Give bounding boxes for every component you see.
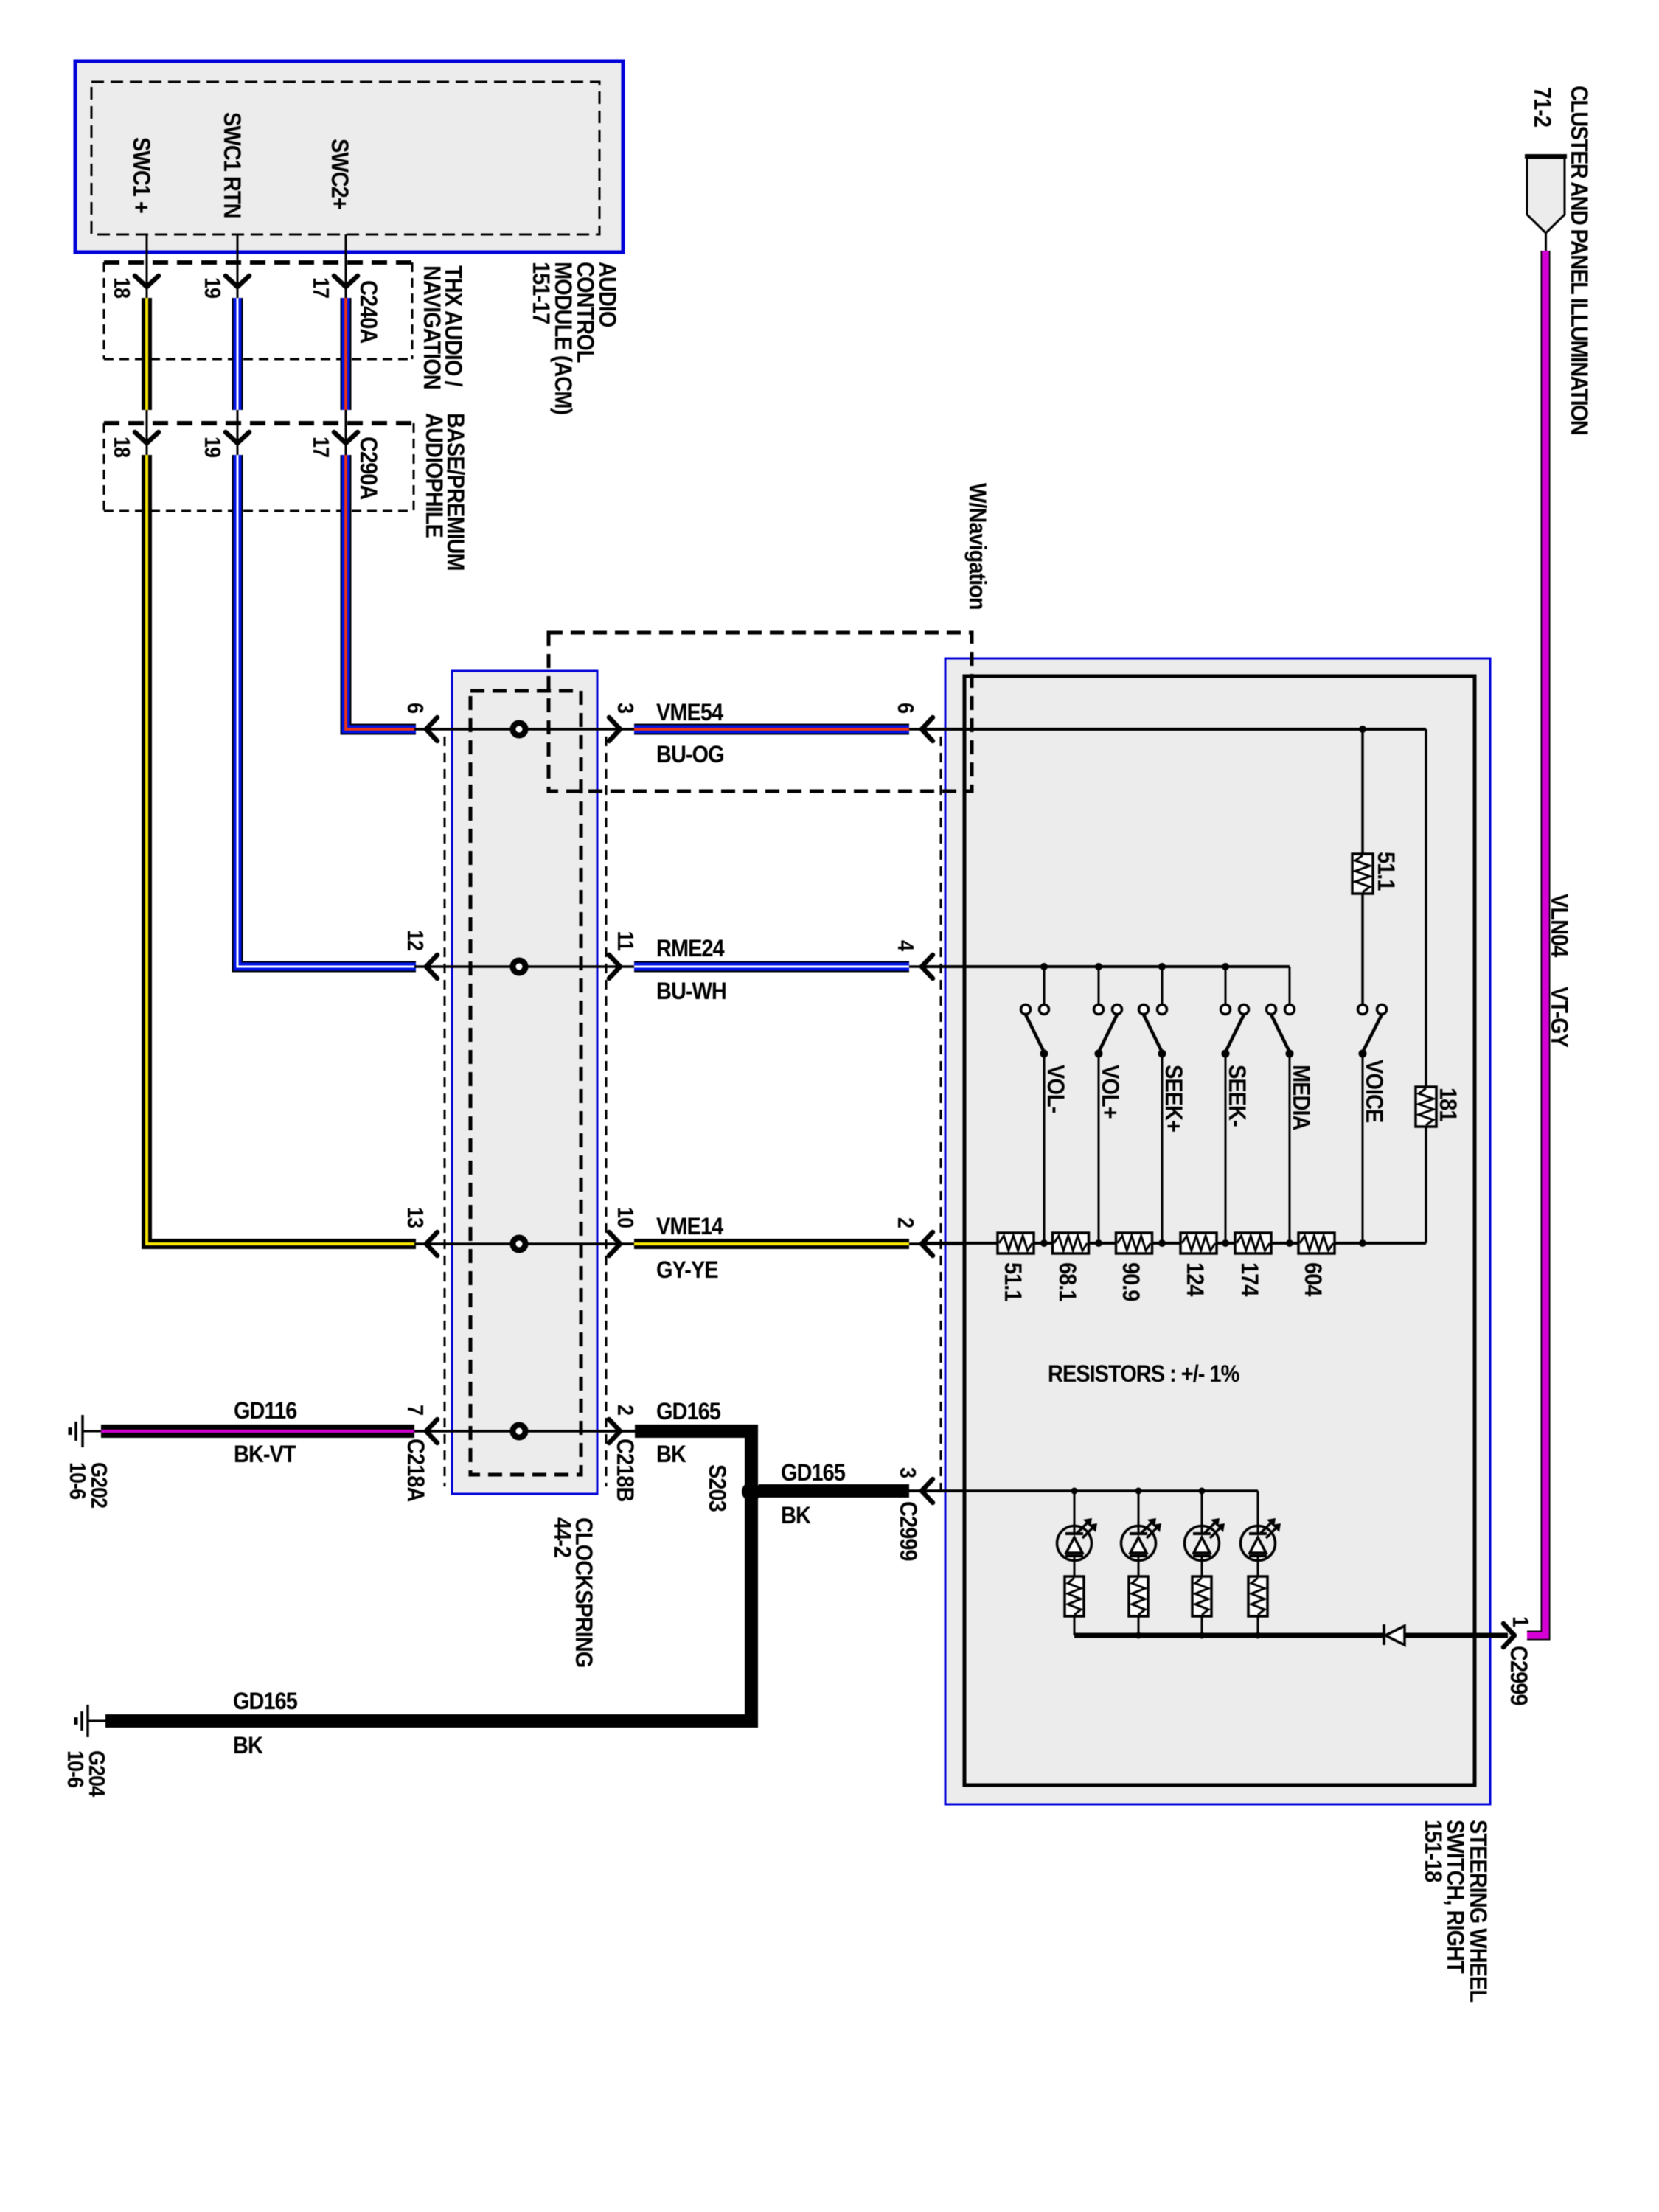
wire: pin 6 net inside switch [922, 726, 1426, 1243]
resistor 174 [1235, 1233, 1271, 1253]
svg-text:GD165: GD165 [656, 1397, 721, 1425]
label GD165 / BK (lower) [233, 1687, 298, 1759]
svg-text:44-2: 44-2 [549, 1517, 577, 1557]
svg-text:SWC1 +: SWC1 + [128, 137, 156, 213]
label STEERING WHEEL SWITCH, RIGHT 151-18 [1420, 1820, 1492, 2002]
svg-text:SWC2+: SWC2+ [327, 139, 354, 209]
svg-text:18: 18 [109, 437, 134, 458]
svg-text:2: 2 [613, 1405, 638, 1415]
svg-text:12: 12 [403, 930, 428, 950]
svg-text:SEEK+: SEEK+ [1161, 1065, 1188, 1132]
clockspring feed-through row pins 7/2 [414, 1419, 636, 1443]
svg-text:6: 6 [403, 703, 428, 713]
svg-text:10: 10 [613, 1207, 638, 1228]
svg-text:BU-WH: BU-WH [656, 977, 726, 1004]
wire VME54 BU-OG (clockspring to switch pin 6) [634, 724, 909, 735]
label G204 10-6 [63, 1750, 109, 1797]
wire: pin 3 LED feed line [909, 1488, 1258, 1526]
label VME14 / GY-YE [656, 1212, 724, 1283]
svg-text:GD165: GD165 [781, 1458, 846, 1486]
svg-text:C290A: C290A [355, 437, 383, 500]
svg-text:17: 17 [308, 437, 333, 457]
clockspring feed-through row pins 12/11 [414, 955, 636, 978]
wire RME24 BU-WH (to clockspring pin 12) [237, 455, 416, 967]
ground G204 [76, 1705, 105, 1737]
svg-text:18: 18 [109, 277, 134, 299]
svg-text:3: 3 [613, 703, 638, 713]
svg-text:VME14: VME14 [656, 1212, 724, 1239]
connector C240A (THX AUDIO / NAVIGATION) [104, 262, 412, 359]
svg-text:4: 4 [893, 940, 918, 951]
svg-text:2: 2 [893, 1217, 918, 1228]
switch VOL+ [1094, 1005, 1122, 1244]
LED 2 (illumination) [1121, 1491, 1162, 1576]
off-page connector CLUSTER AND PANEL ILLUMINATION 71-2 [1525, 156, 1567, 251]
switch connector arrows pins 6/4/2/3 [909, 717, 967, 1503]
switch MEDIA [1267, 1005, 1295, 1244]
svg-text:1: 1 [1508, 1616, 1533, 1627]
LED 4 (illumination) [1241, 1491, 1281, 1576]
wire GD165 BK (C218B pin2 to S203 to G204) [105, 1431, 751, 1721]
svg-text:C2999: C2999 [1506, 1646, 1533, 1705]
svg-text:G204: G204 [84, 1750, 109, 1797]
option region W/Navigation [549, 633, 972, 791]
label GD165 / BK (to pin 3) [781, 1458, 846, 1528]
svg-text:151-17: 151-17 [528, 262, 555, 324]
switch pin 1 arrow [1503, 1624, 1514, 1647]
svg-text:SEEK-: SEEK- [1224, 1065, 1251, 1127]
clockspring feed-through row pins 13/10 [414, 1232, 636, 1256]
label BASE/PREMIUM AUDIOPHILE [421, 413, 470, 571]
label VME54 / BU-OG [656, 698, 724, 768]
switch SEEK+ [1139, 1005, 1167, 1244]
svg-text:C240A: C240A [355, 280, 383, 344]
wire VME14 GY-YE segment (C240A-C290A) [142, 298, 152, 410]
LED 3 (illumination) [1185, 1491, 1225, 1576]
module box: AUDIO CONTROL MODULE (ACM) [75, 61, 623, 252]
svg-text:17: 17 [308, 277, 333, 298]
svg-text:11: 11 [613, 931, 638, 951]
svg-text:BK-VT: BK-VT [234, 1440, 296, 1467]
svg-text:13: 13 [403, 1207, 428, 1228]
switch VOL- [1021, 1005, 1049, 1244]
wire: pin 4 common bus [922, 963, 1290, 1004]
label THX AUDIO / NAVIGATION [419, 265, 467, 389]
svg-text:90.9: 90.9 [1118, 1262, 1145, 1301]
label GD165 / BK (upper) [656, 1397, 721, 1467]
wire: pin 2 resistor ladder bus [922, 1239, 1426, 1247]
wire SWC1 RTN drop from ACM pin 19 [237, 234, 239, 298]
wire GD116 BK-VT (G202 to clockspring pin 7) [101, 1425, 426, 1438]
svg-text:BU-OG: BU-OG [656, 740, 724, 768]
C240A pin arrows [135, 276, 358, 287]
wire VME54 BU-OG segment (C240A-C290A) [341, 298, 352, 410]
resistor 68.1 [1053, 1233, 1089, 1253]
svg-text:68.1: 68.1 [1054, 1262, 1082, 1301]
wire GD165 BK (S203 to switch pin 3) [759, 1484, 909, 1498]
svg-text:19: 19 [200, 437, 225, 457]
label GD116 / BK-VT [234, 1397, 297, 1467]
svg-text:71-2: 71-2 [1529, 87, 1557, 127]
clockspring feed-through row pins 6/3 [414, 717, 636, 741]
ground G202 [70, 1415, 101, 1447]
svg-text:604: 604 [1300, 1262, 1327, 1297]
svg-text:VT-GY: VT-GY [1546, 987, 1573, 1048]
connector line C2999 [940, 737, 942, 1498]
resistor 90.9 [1116, 1233, 1152, 1253]
svg-text:C2999: C2999 [895, 1501, 922, 1561]
wire SWC2+ drop from ACM pin 17 [345, 234, 347, 298]
svg-text:VOL-: VOL- [1043, 1065, 1070, 1113]
label AUDIO CONTROL MODULE (ACM) 151-17 [528, 262, 622, 414]
wire SWC1+ drop from ACM pin 18 [146, 234, 148, 298]
switch SEEK- [1221, 1005, 1249, 1244]
wire RME24 BU-WH (clockspring to switch pin 4) [634, 961, 909, 973]
svg-text:3: 3 [895, 1467, 920, 1478]
svg-text:151-18: 151-18 [1420, 1820, 1447, 1882]
svg-text:181: 181 [1435, 1088, 1462, 1121]
svg-text:6: 6 [893, 703, 918, 713]
resistor 181 [1416, 1087, 1436, 1127]
resistor 51.1 (voice) [1352, 854, 1373, 894]
resistor 51.1 (ladder) [998, 1233, 1034, 1253]
svg-text:W/Navigation: W/Navigation [964, 483, 992, 610]
svg-text:BK: BK [656, 1440, 686, 1467]
resistor 604 [1298, 1233, 1335, 1253]
C290A crossing stubs and arrows [135, 410, 358, 455]
svg-text:RME24: RME24 [656, 934, 725, 961]
svg-text:VOL+: VOL+ [1097, 1065, 1124, 1119]
module box: CLOCKSPRING [452, 671, 597, 1494]
connector line C218B [605, 737, 608, 1486]
connector C290A (BASE/PREMIUM AUDIOPHILE) [104, 423, 414, 511]
svg-text:51.1: 51.1 [1000, 1262, 1027, 1301]
switch VOICE [1358, 1005, 1387, 1244]
svg-text:10-6: 10-6 [63, 1750, 88, 1787]
svg-text:124: 124 [1182, 1262, 1209, 1297]
svg-text:C218B: C218B [612, 1439, 639, 1501]
svg-text:MEDIA: MEDIA [1288, 1065, 1315, 1130]
svg-text:C218A: C218A [403, 1439, 430, 1502]
module box: STEERING WHEEL SWITCH, RIGHT [945, 658, 1490, 1804]
svg-text:10-6: 10-6 [65, 1462, 90, 1499]
resistor 124 [1180, 1233, 1217, 1253]
label CLOCKSPRING 44-2 [549, 1517, 598, 1667]
label RME24 / BU-WH [656, 934, 726, 1004]
svg-text:GD165: GD165 [233, 1687, 298, 1714]
svg-text:VME54: VME54 [656, 698, 724, 726]
wire VME54 BU-OG (to clockspring pin 6) [346, 455, 416, 729]
svg-text:CLUSTER AND PANEL ILLUMINATION: CLUSTER AND PANEL ILLUMINATION [1566, 86, 1593, 434]
svg-text:GD116: GD116 [234, 1397, 297, 1424]
svg-text:7: 7 [403, 1405, 428, 1415]
svg-text:RESISTORS : +/- 1%: RESISTORS : +/- 1% [1048, 1360, 1239, 1387]
svg-text:AUDIOPHILE: AUDIOPHILE [421, 413, 448, 538]
svg-text:19: 19 [200, 277, 225, 298]
connector line C218A [444, 737, 446, 1486]
svg-text:BK: BK [781, 1501, 811, 1528]
label G202 10-6 [65, 1462, 111, 1508]
svg-text:G202: G202 [86, 1462, 111, 1508]
svg-text:VLN04: VLN04 [1546, 894, 1573, 958]
splice S203 [742, 1482, 761, 1501]
svg-text:174: 174 [1237, 1262, 1264, 1297]
wire VME14 GY-YE (to clockspring pin 13) [147, 455, 416, 1244]
wire: LED return bus to pin 1 [1074, 1632, 1508, 1639]
svg-text:VOICE: VOICE [1361, 1060, 1388, 1123]
svg-text:NAVIGATION: NAVIGATION [419, 265, 446, 389]
wire RME24 BU-WH segment (C240A-C290A) [232, 298, 243, 410]
svg-text:GY-YE: GY-YE [656, 1256, 718, 1283]
wire VLN04 VT-GY (panel illumination feed) [1527, 251, 1545, 1635]
svg-text:BK: BK [233, 1731, 263, 1759]
svg-text:S203: S203 [704, 1464, 731, 1512]
diode D1 [1384, 1624, 1405, 1645]
svg-text:51.1: 51.1 [1373, 852, 1400, 891]
LED 1 (illumination) [1057, 1491, 1098, 1576]
wire VME14 GY-YE (clockspring to switch pin 2) [634, 1239, 909, 1249]
svg-text:SWC1 RTN: SWC1 RTN [219, 112, 246, 218]
